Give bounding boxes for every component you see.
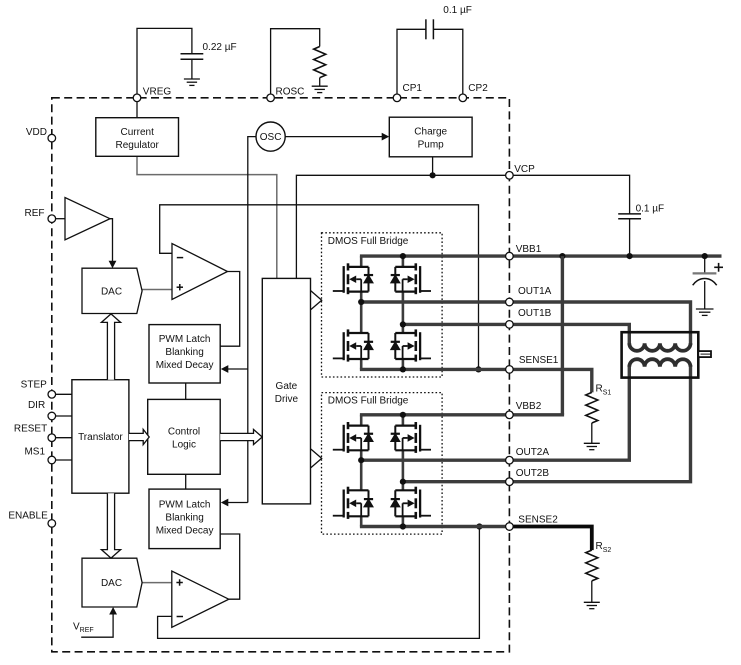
wire+arrow: oscillator blanking into PWM latch 2 bbox=[228, 502, 248, 504]
transistor: bridge 1 high-side A DMOS bbox=[333, 263, 373, 294]
svg-text:VDD: VDD bbox=[26, 127, 47, 138]
junction: bridge 2 OUT2B rail / half-bridge B bbox=[400, 479, 406, 485]
pin OUT1A bbox=[506, 298, 514, 306]
pin ROSC bbox=[267, 94, 275, 102]
wire: bridge 2 high-side A drain to VBB rail bbox=[360, 415, 363, 426]
wire: control logic to PWM latch 2 (vertical) bbox=[185, 474, 187, 489]
transistor: bridge 2 high-side B DMOS bbox=[391, 422, 431, 453]
svg-text:Blanking: Blanking bbox=[165, 347, 203, 358]
pin OUT2B bbox=[506, 478, 514, 486]
junction: VBB1 / C3 bbox=[627, 253, 633, 259]
wire: MS1 pin to translator bbox=[56, 459, 72, 461]
wire: ROSC pin up to external resistor bbox=[271, 29, 320, 98]
block: Control Logic bbox=[148, 399, 221, 474]
junction: feedback on SENSE1 line bbox=[475, 366, 481, 372]
capacitor C2 0.1 uF (charge pump flying cap) bbox=[425, 19, 427, 39]
wire: bridge 2 high-side B drain to VBB rail bbox=[402, 415, 405, 426]
block: PWM Latch / Blanking / Mixed Decay 1 bbox=[149, 325, 220, 383]
gate-drive bus arrow into bridge 1 bbox=[311, 291, 322, 310]
wire: bridge 1 high-side B source down to OUT1B rail (crosses OUT1A) bbox=[402, 292, 405, 325]
wire+arrow: oscillator blanking into PWM latch 1 bbox=[228, 368, 248, 370]
wire: RS2 to ground bbox=[591, 581, 593, 602]
svg-text:PWM Latch: PWM Latch bbox=[159, 334, 211, 345]
ground (below RS2) bbox=[584, 602, 600, 608]
svg-text:VBB2: VBB2 bbox=[516, 401, 542, 412]
svg-text:Control: Control bbox=[168, 427, 200, 438]
wire: DAC 1 output to op-amp 1 non-inverting input (gray) bbox=[142, 289, 172, 291]
pin OUT1B bbox=[506, 321, 514, 329]
svg-text:0.1 µF: 0.1 µF bbox=[443, 5, 472, 16]
wire: VBB2 rail (thick) bbox=[360, 413, 510, 416]
junction: bridge 2 OUT2A rail / half-bridge A bbox=[358, 457, 364, 463]
transistor: bridge 1 high-side B DMOS bbox=[391, 263, 431, 294]
wire: SENSE2 to RS2 (thick black) bbox=[509, 527, 591, 551]
ground (below bulk capacitor) bbox=[696, 309, 714, 315]
wire: STEP pin to translator bbox=[56, 393, 72, 395]
wire: bridge 2 low-side A source to SENSE2 rail bbox=[360, 516, 363, 526]
junction: VBB1 / VBB2 interconnect bbox=[559, 253, 565, 259]
svg-text:MS1: MS1 bbox=[24, 446, 45, 457]
bus arrow: translator to DAC 1 (up) bbox=[101, 314, 120, 380]
pin CP1 bbox=[393, 94, 401, 102]
wire: VBB1 to VBB2 interconnect (thick vertical) bbox=[561, 256, 564, 415]
wire: DIR pin to translator bbox=[56, 415, 72, 417]
junction: bridge 1 OUT1A rail / half-bridge A bbox=[358, 299, 364, 305]
wire: C3 down to VBB1 line bbox=[629, 219, 631, 256]
block: Charge Pump bbox=[389, 117, 472, 157]
wire: OUT2B to motor winding 2 right end (thick) bbox=[509, 365, 690, 482]
junction: VBB1 / bulk capacitor bbox=[702, 253, 708, 259]
block: Current Regulator bbox=[96, 118, 179, 157]
wire: VBB1 external supply line (thick) bbox=[509, 254, 721, 257]
junction: bridge 1 SENSE rail / low-side B source bbox=[400, 366, 406, 372]
wire: bridge 2 low-side B source to SENSE2 rail bbox=[402, 516, 405, 526]
wire: OUT1A rail (thick) bbox=[360, 300, 510, 303]
capacitor C1 0.22 uF (VREG bypass) bbox=[181, 53, 204, 55]
svg-text:Charge: Charge bbox=[414, 127, 447, 138]
wire: SENSE1 rail (thick) bbox=[360, 368, 510, 371]
stepper motor body bbox=[622, 332, 699, 377]
wire: bridge 1 low-side A source to SENSE1 rail bbox=[360, 359, 363, 369]
wire: VREG to current regulator (pin stem) bbox=[136, 98, 138, 118]
wire: bridge 1 high-side A drain to VBB rail bbox=[360, 256, 363, 267]
op-amp U1 (top comparator) bbox=[172, 244, 228, 300]
wire: VBB2 pin to interconnect (thick) bbox=[509, 413, 564, 416]
DAC 1 (top) bbox=[82, 268, 142, 313]
svg-text:0.22 µF: 0.22 µF bbox=[203, 42, 237, 53]
svg-text:OUT1B: OUT1B bbox=[518, 308, 552, 319]
wire: op-amp 1 output to PWM latch 1 bbox=[220, 272, 240, 347]
wire: RESET pin to translator bbox=[56, 437, 72, 439]
wire: OSC down to PWM blanking blocks bbox=[248, 137, 256, 503]
pin VBB1 bbox=[506, 252, 514, 260]
wire: current regulator output down and right (gray) bbox=[137, 156, 277, 278]
wire: OSC output to charge pump bbox=[285, 136, 382, 138]
wire: bridge 1 high-side B drain to VBB rail bbox=[402, 256, 405, 267]
svg-text:OSC: OSC bbox=[260, 132, 282, 143]
IC boundary (dashed) bbox=[52, 98, 510, 652]
svg-text:Current: Current bbox=[121, 127, 155, 138]
pin ENABLE bbox=[48, 520, 56, 528]
pin REF bbox=[48, 215, 56, 223]
svg-text:Mixed Decay: Mixed Decay bbox=[156, 526, 214, 537]
wire: DAC 2 output to op-amp 2 non-inverting input (gray) bbox=[142, 582, 172, 584]
wire: REF buffer output into DAC 1 bbox=[110, 219, 113, 262]
svg-text:Translator: Translator bbox=[78, 432, 123, 443]
resistor RS2 (sense resistor 2) bbox=[586, 550, 598, 581]
block: PWM Latch / Blanking / Mixed Decay 2 bbox=[149, 489, 220, 548]
inductor: motor phase-1 winding bbox=[629, 343, 690, 351]
wire: OUT1B rail (thick) bbox=[402, 323, 510, 326]
junction: bridge 2 SENSE rail / low-side B source bbox=[400, 523, 406, 529]
capacitor C3 0.1 uF (VCP reservoir) bbox=[618, 213, 641, 215]
wire: bridge 2 high-side B source down to OUT2B rail (crosses OUT2A) bbox=[402, 450, 405, 481]
svg-text:PWM Latch: PWM Latch bbox=[159, 500, 211, 511]
svg-text:SENSE1: SENSE1 bbox=[519, 355, 559, 366]
wire: C1 to ground bbox=[191, 59, 193, 79]
ground (below C1) bbox=[184, 79, 200, 85]
wire: OUT2A to motor winding 2 left end (thick) bbox=[509, 365, 629, 460]
pin VCP bbox=[506, 172, 514, 180]
svg-text:ROSC: ROSC bbox=[276, 87, 305, 98]
pin SENSE2 bbox=[506, 523, 514, 531]
svg-text:DAC: DAC bbox=[101, 286, 122, 297]
wire: op-amp 2 output to PWM latch 2 bbox=[220, 534, 240, 599]
wire: bridge 2 low-side B drain to OUT2B rail bbox=[402, 482, 405, 491]
svg-text:CP2: CP2 bbox=[468, 83, 488, 94]
transistor: bridge 1 low-side B DMOS bbox=[391, 329, 431, 361]
amplifier: REF input buffer bbox=[65, 198, 110, 240]
wire: VBB1 rail (thick) bbox=[360, 254, 510, 257]
bus arrow: control logic to gate drive bbox=[220, 429, 262, 444]
svg-text:0.1 µF: 0.1 µF bbox=[636, 204, 665, 215]
svg-text:Gate: Gate bbox=[276, 381, 298, 392]
junction: bridge 1 VBB rail / high-side B drain bbox=[400, 253, 406, 259]
svg-text:SENSE2: SENSE2 bbox=[518, 515, 558, 526]
resistor R1 (ROSC oscillator set resistor) bbox=[314, 47, 326, 78]
ground (below RS1) bbox=[584, 443, 600, 449]
wire: bulk capacitor stem from VBB1 bbox=[704, 256, 706, 273]
inductor: motor phase-2 winding bbox=[629, 359, 690, 367]
svg-text:Mixed Decay: Mixed Decay bbox=[156, 360, 214, 371]
pin SENSE1 bbox=[506, 366, 514, 374]
minus sign of op-amp U2 bbox=[177, 616, 183, 618]
minus sign of op-amp U1 bbox=[177, 257, 183, 259]
svg-text:ENABLE: ENABLE bbox=[8, 510, 48, 521]
DMOS Full Bridge 2 enclosure (dotted) bbox=[322, 393, 443, 534]
resistor RS1 (sense resistor 1) bbox=[586, 392, 598, 423]
pin DIR bbox=[48, 412, 56, 420]
svg-text:OUT2A: OUT2A bbox=[516, 447, 550, 458]
svg-text:DMOS Full Bridge: DMOS Full Bridge bbox=[328, 236, 409, 247]
block: Translator bbox=[72, 380, 129, 494]
wire: bridge 1 low-side B source to SENSE1 rail bbox=[402, 359, 405, 369]
bus arrow: translator to control logic bbox=[129, 429, 149, 444]
wire: RS1 to ground bbox=[591, 423, 593, 443]
svg-text:Drive: Drive bbox=[275, 394, 299, 405]
svg-text:Logic: Logic bbox=[172, 440, 196, 451]
wire: bridge 2 high-side A source to OUT2A rail bbox=[360, 450, 363, 460]
wire: control logic to PWM latch 1 (vertical) bbox=[185, 383, 187, 399]
wire: bridge 1 high-side A source to OUT1A rail bbox=[360, 292, 363, 302]
wire: SENSE1 to RS1 (thick) bbox=[509, 369, 591, 392]
transistor: bridge 2 low-side A DMOS bbox=[333, 487, 373, 519]
svg-text:OUT2B: OUT2B bbox=[516, 468, 550, 479]
transistor: bridge 2 low-side B DMOS bbox=[391, 487, 431, 519]
transistor: bridge 1 low-side A DMOS bbox=[333, 329, 373, 361]
svg-text:VBB1: VBB1 bbox=[516, 244, 542, 255]
wire: OUT2B rail (thick) bbox=[402, 480, 510, 483]
plus sign of op-amp U1 bbox=[177, 286, 183, 288]
wire: bridge 2 low-side A drain to OUT2A rail bbox=[360, 460, 363, 490]
pin VDD bbox=[48, 134, 56, 142]
wire: op-amp 2 inverting feedback from SENSE2 (down and over) bbox=[158, 527, 480, 639]
motor shaft bbox=[698, 351, 711, 357]
capacitor C4 bulk electrolytic (+) bbox=[693, 272, 717, 274]
svg-text:OUT1A: OUT1A bbox=[518, 286, 552, 297]
svg-text:VCP: VCP bbox=[514, 164, 535, 175]
wire: VREF input with arrow into DAC 2 bbox=[81, 614, 113, 638]
wire: OUT1A to motor winding 1 right end (thick) bbox=[509, 302, 690, 345]
svg-text:CP1: CP1 bbox=[403, 83, 423, 94]
wire: REF pin to buffer amp bbox=[56, 218, 65, 220]
wire: CP1 pin up to 0.1uF pump capacitor bbox=[397, 29, 426, 98]
wire: charge pump output to VCP node bbox=[432, 157, 434, 176]
junction: bridge 2 VBB rail / high-side B drain bbox=[400, 412, 406, 418]
svg-text:Pump: Pump bbox=[418, 140, 445, 151]
junction: bridge 1 OUT1B rail / half-bridge B bbox=[400, 321, 406, 327]
gate-drive bus arrow into bridge 2 bbox=[311, 449, 322, 468]
transistor: bridge 2 high-side A DMOS bbox=[333, 422, 373, 453]
pin STEP bbox=[48, 391, 56, 399]
pin OUT2A bbox=[506, 456, 514, 464]
op-amp U2 (bottom comparator) bbox=[172, 571, 229, 627]
wire: bulk capacitor to ground bbox=[704, 281, 706, 309]
plus sign of bulk capacitor bbox=[714, 266, 723, 268]
block: Gate Drive bbox=[262, 278, 310, 504]
svg-text:RESET: RESET bbox=[14, 423, 47, 434]
svg-text:Regulator: Regulator bbox=[116, 140, 160, 151]
ground (below R1) bbox=[312, 86, 328, 92]
bus arrow: translator to DAC 2 (down) bbox=[101, 493, 120, 558]
wire: VREG pin up to 0.22uF capacitor bbox=[137, 28, 192, 97]
pin RESET bbox=[48, 434, 56, 442]
svg-text:DMOS Full Bridge: DMOS Full Bridge bbox=[328, 396, 409, 407]
DAC 2 (bottom) bbox=[82, 558, 142, 607]
wire: bridge 1 low-side B drain to OUT1B rail bbox=[402, 324, 405, 333]
pin CP2 bbox=[459, 94, 467, 102]
pin VREG bbox=[133, 94, 141, 102]
wire: R1 to ground bbox=[319, 78, 321, 87]
wire: SENSE2 rail (thick) bbox=[360, 525, 510, 528]
junction: VCP node bbox=[430, 172, 436, 178]
oscillator OSC bbox=[256, 122, 285, 151]
svg-text:VREG: VREG bbox=[143, 87, 172, 98]
wire: bridge 1 low-side A drain to OUT1A rail bbox=[360, 302, 363, 333]
wire: op-amp 1 inverting feedback from SENSE1 (up and over) bbox=[160, 205, 479, 370]
wire: OUT1B to motor winding 1 left end (thick) bbox=[509, 324, 629, 345]
wire: VCP pin to external 0.1uF cap bbox=[509, 175, 629, 214]
plus sign of op-amp U2 bbox=[176, 582, 182, 584]
svg-text:DAC: DAC bbox=[101, 578, 122, 589]
DMOS Full Bridge 1 enclosure (dotted) bbox=[322, 233, 443, 377]
svg-text:Blanking: Blanking bbox=[165, 513, 203, 524]
pin VBB2 bbox=[506, 411, 514, 419]
svg-text:REF: REF bbox=[25, 208, 45, 219]
pin MS1 bbox=[48, 456, 56, 464]
junction: feedback on SENSE2 line bbox=[476, 523, 482, 529]
wire: C2 to CP2 pin bbox=[433, 29, 462, 98]
wire: OUT2A rail (thick) bbox=[360, 459, 510, 462]
svg-text:DIR: DIR bbox=[28, 400, 45, 411]
wire: VCP net corner down into gate drive bbox=[296, 175, 509, 278]
svg-text:STEP: STEP bbox=[21, 380, 47, 391]
